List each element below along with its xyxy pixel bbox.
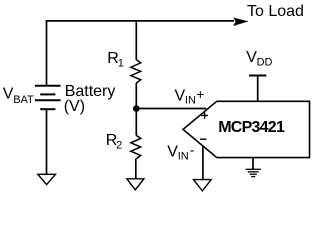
svg-text:-: -: [190, 142, 195, 158]
ground: earth under U1: [246, 169, 261, 176]
svg-text:1: 1: [118, 58, 124, 70]
wire: node to VIN+ input of U1: [136, 108, 206, 110]
wire: VDD stub into U1: [257, 76, 259, 102]
svg-text:V: V: [175, 88, 186, 105]
op-amp / ADC U1 MCP3421 body: [183, 101, 310, 157]
svg-text:To Load: To Load: [247, 3, 304, 20]
wire: battery negative to ground: [46, 109, 48, 174]
ground: R2 (open triangle): [127, 179, 144, 190]
wire: battery positive vertical: [46, 20, 48, 86]
ground: battery (open triangle): [38, 174, 56, 184]
svg-text:DD: DD: [257, 56, 273, 68]
svg-text:IN: IN: [185, 95, 196, 107]
pin +: U1 non-inverting input mark: [201, 112, 208, 119]
resistor R2 zigzag: [131, 135, 141, 158]
svg-text:2: 2: [116, 139, 122, 151]
svg-text:V: V: [167, 143, 178, 160]
wire: VIN- vertical to ground: [202, 146, 204, 180]
wire: top rail from battery to load arrow: [47, 20, 235, 22]
ground: VIN- (open triangle): [194, 180, 212, 191]
wire: R1 top drop from rail: [135, 21, 137, 60]
node: junction dot at R1/R2 divider: [133, 105, 140, 112]
power: VDD rail bar: [249, 75, 266, 77]
svg-text:V: V: [246, 49, 257, 66]
wire: R2 bottom to ground: [135, 159, 137, 179]
arrowhead: To Load: [233, 18, 248, 27]
wire: R1 bottom to node: [135, 83, 137, 109]
resistor R1 zigzag: [131, 60, 141, 83]
svg-text:BAT: BAT: [13, 94, 34, 106]
svg-text:MCP3421: MCP3421: [218, 119, 285, 136]
svg-text:V: V: [3, 85, 14, 102]
wire: node down to R2: [135, 109, 137, 136]
battery V_BAT plates: [35, 86, 61, 110]
svg-text:(V): (V): [64, 98, 85, 115]
wire: U1 VSS stub to earth ground: [252, 158, 254, 170]
svg-text:IN: IN: [178, 150, 189, 162]
svg-text:+: +: [196, 86, 204, 102]
pin -: U1 inverting input mark: [200, 138, 207, 140]
